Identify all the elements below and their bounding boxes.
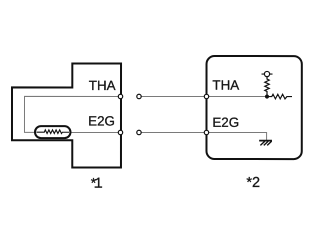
thermistor body bbox=[35, 126, 71, 138]
terminal circle THA sensor side bbox=[118, 94, 122, 98]
terminal circle E2G harness side bbox=[137, 130, 141, 134]
junction dot THA node bbox=[265, 94, 269, 98]
ground (chassis) bbox=[259, 141, 272, 146]
wire THA sensor loop bbox=[24, 96, 120, 132]
resistor pull-up (vertical) bbox=[265, 77, 269, 97]
terminal circle THA ECU side bbox=[204, 94, 208, 98]
svg-text:THA: THA bbox=[89, 78, 116, 93]
wire E2G harness bbox=[139, 131, 206, 133]
terminal circle E2G ECU side bbox=[204, 130, 208, 134]
svg-text:E2G: E2G bbox=[88, 114, 115, 129]
svg-text:*2: *2 bbox=[246, 175, 260, 191]
power supply symbol bbox=[262, 71, 273, 76]
wire THA inside ECU bbox=[207, 96, 267, 98]
resistor series (horizontal) bbox=[267, 94, 292, 99]
wire THA harness bbox=[139, 95, 206, 97]
svg-text:THA: THA bbox=[212, 78, 239, 93]
wire E2G inside ECU bbox=[206, 133, 266, 141]
svg-text:*1: *1 bbox=[91, 175, 103, 193]
thermistor resistor zigzag bbox=[36, 130, 69, 134]
ECU block *2 bbox=[206, 56, 301, 159]
sensor connector block *1 bbox=[12, 63, 121, 167]
svg-text:E2G: E2G bbox=[212, 115, 239, 130]
terminal circle THA harness side bbox=[137, 94, 141, 98]
terminal circle E2G sensor side bbox=[118, 130, 122, 134]
wire E2G sensor lead bbox=[70, 131, 120, 133]
